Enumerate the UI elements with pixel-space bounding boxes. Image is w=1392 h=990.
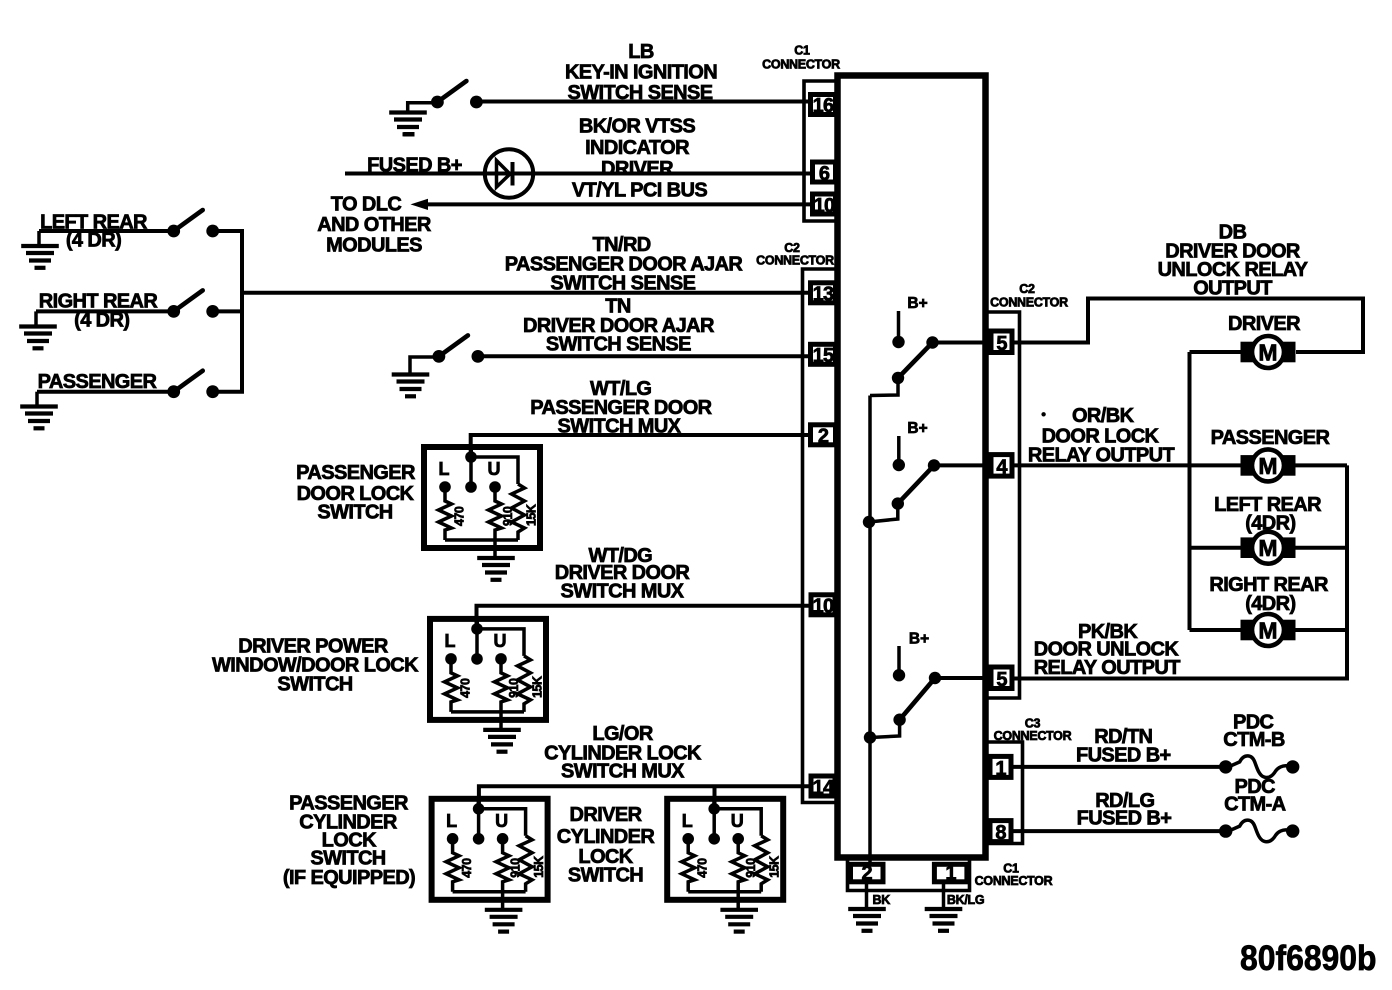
wire passenger door mux to pin 2	[471, 435, 810, 452]
ground (right rear switch)	[19, 327, 57, 349]
left rear door ajar switch	[167, 210, 219, 237]
driver door ajar switch	[433, 335, 485, 362]
svg-text:(IF EQUIPPED): (IF EQUIPPED)	[283, 867, 415, 889]
svg-text:DRIVER: DRIVER	[570, 804, 643, 826]
relay K3 wiper node	[893, 714, 905, 726]
pin 10	[813, 194, 836, 217]
wire motor unlock bus	[1345, 465, 1349, 678]
wire relay K1 to pin 5	[933, 341, 992, 345]
wire right rear switch feed	[36, 309, 168, 313]
VTSS indicator LED circle	[485, 149, 533, 197]
relay K1 wiper node	[892, 372, 904, 384]
wire relay K1 wiper to bus	[870, 378, 898, 396]
label RD/LG FUSED B+	[1077, 790, 1172, 829]
label TO DLC AND OTHER MODULES	[317, 194, 432, 257]
wire pin 8 to PDC CTM-A	[1011, 829, 1226, 833]
label LG/OR CYLINDER LOCK SWITCH MUX	[544, 723, 702, 783]
pin 2	[811, 425, 836, 448]
ground (passenger switch)	[20, 407, 58, 429]
svg-text:SWITCH SENSE: SWITCH SENSE	[546, 334, 691, 356]
passenger door lock motor M2	[1241, 449, 1296, 481]
wire right rear ground stem	[34, 311, 38, 325]
svg-text:BK/OR VTSS: BK/OR VTSS	[579, 116, 695, 138]
svg-text:1: 1	[995, 758, 1006, 780]
svg-text:10: 10	[813, 596, 834, 618]
wire driver motor to lock bus	[1190, 350, 1243, 354]
wire right rear contact to bus	[211, 309, 244, 313]
label TN/RD PASSENGER DOOR AJAR SWITCH SENSE	[505, 234, 744, 295]
wire left rear motor to unlock bus	[1294, 546, 1347, 550]
svg-text:VT/YL PCI BUS: VT/YL PCI BUS	[572, 180, 707, 202]
label PK/BK DOOR UNLOCK RELAY OUTPUT	[1034, 621, 1181, 679]
stray mark	[404, 132, 415, 137]
ground BK/LG	[925, 909, 963, 931]
label RD/TN FUSED B+	[1076, 726, 1171, 767]
svg-text:1: 1	[945, 863, 956, 885]
label C1 CONNECTOR (bottom)	[975, 862, 1053, 889]
pin 14	[811, 776, 835, 799]
relay K3 B+ stub	[897, 646, 901, 670]
wire lock bus to left rear motor	[1190, 546, 1243, 550]
wire relay K2 wiper to bus	[869, 504, 898, 522]
label TN DRIVER DOOR AJAR SWITCH SENSE	[523, 296, 715, 356]
svg-text:PASSENGER: PASSENGER	[296, 462, 416, 484]
svg-text:5: 5	[996, 669, 1007, 691]
connector C3 bracket (right)	[985, 742, 1023, 844]
label LEFT REAR (4DR) motor	[1214, 494, 1322, 535]
wire key-in sense to pin 16	[477, 100, 810, 104]
driver door lock motor M1	[1241, 336, 1296, 368]
connector C1 bracket (top left)	[804, 81, 838, 221]
ground (left rear switch)	[21, 246, 59, 268]
pin 8 (C3)	[990, 821, 1011, 844]
label C1 CONNECTOR (top)	[762, 44, 840, 72]
svg-text:2: 2	[818, 426, 829, 448]
relay K2 B+ stub	[897, 436, 901, 460]
pin 6	[813, 162, 836, 185]
node bus junction K3	[864, 731, 876, 743]
label C2 CONNECTOR (right)	[990, 282, 1068, 310]
svg-text:SWITCH MUX: SWITCH MUX	[561, 580, 685, 602]
wire DB driver door unlock relay output	[1012, 299, 1363, 353]
relay K1 contact node	[926, 336, 938, 348]
svg-text:CONNECTOR: CONNECTOR	[756, 254, 834, 268]
relay K3 contact node	[929, 672, 941, 684]
label DB DRIVER DOOR UNLOCK RELAY OUTPUT	[1158, 221, 1309, 299]
wire left rear switch feed	[39, 229, 168, 233]
passenger door lock switch assembly	[424, 447, 540, 580]
relay K2 lever	[898, 465, 934, 503]
svg-text:4: 4	[996, 457, 1008, 479]
wire passenger motor to unlock bus	[1294, 463, 1347, 467]
svg-text:CYLINDER: CYLINDER	[557, 826, 656, 848]
label RIGHT REAR (4DR) motor	[1209, 574, 1329, 615]
svg-text:KEY-IN IGNITION: KEY-IN IGNITION	[565, 62, 717, 84]
svg-text:CTM-B: CTM-B	[1223, 729, 1285, 751]
svg-text:5: 5	[996, 333, 1007, 355]
pin 16	[811, 95, 836, 118]
right rear door ajar switch	[167, 290, 219, 317]
ground BK	[848, 909, 886, 931]
svg-text:(4DR): (4DR)	[1245, 593, 1295, 615]
wire ajar switch bus	[240, 231, 244, 392]
svg-text:10: 10	[814, 195, 835, 217]
label DRIVER CYLINDER LOCK SWITCH	[557, 804, 656, 887]
svg-text:SWITCH: SWITCH	[317, 502, 392, 524]
svg-text:C1: C1	[794, 44, 810, 58]
wire relay K3 wiper to bus	[871, 720, 900, 738]
label PDC CTM-A	[1224, 776, 1286, 815]
connector C2 bracket (right)	[985, 312, 1020, 698]
relay K3 lever	[900, 678, 935, 720]
pin 1 (C3)	[990, 756, 1011, 780]
wire key-in switch to ground	[408, 103, 432, 113]
wire right rear motor to unlock bus	[1294, 628, 1347, 632]
wire passenger contact to bus	[211, 390, 244, 394]
svg-text:14: 14	[813, 777, 835, 799]
connector C2 bracket (left)	[803, 269, 839, 803]
passenger cylinder lock switch assembly	[432, 799, 548, 932]
svg-text:MODULES: MODULES	[326, 235, 422, 257]
wire OR/BK door lock relay output to passenger motor	[1012, 463, 1242, 467]
svg-text:80f6890b: 80f6890b	[1240, 939, 1377, 978]
label LB KEY-IN IGNITION SWITCH SENSE	[565, 41, 717, 104]
svg-text:PASSENGER: PASSENGER	[1211, 427, 1331, 449]
wire fused B+ through indicator to pin 6	[345, 172, 812, 176]
wire relay K3 to pin 5	[935, 676, 991, 680]
driver power window/door lock switch assembly	[430, 619, 546, 752]
svg-text:INDICATOR: INDICATOR	[585, 137, 690, 159]
relay K2 wiper node	[892, 497, 904, 509]
label OR/BK DOOR LOCK RELAY OUTPUT	[1028, 405, 1175, 467]
svg-text:AND OTHER: AND OTHER	[317, 214, 432, 236]
diode symbol	[497, 161, 513, 188]
svg-text:RELAY OUTPUT: RELAY OUTPUT	[1034, 657, 1181, 679]
wire motor lock bus	[1188, 352, 1192, 630]
central time module U1 box	[838, 76, 986, 858]
label C2 CONNECTOR (left)	[756, 241, 834, 268]
wire PK/BK door unlock relay output	[1012, 677, 1349, 681]
svg-text:FUSED B+: FUSED B+	[1076, 745, 1171, 767]
key-in ignition switch S1	[431, 81, 483, 108]
pin 5 (C2 right top)	[991, 331, 1012, 355]
svg-text:SWITCH: SWITCH	[568, 865, 643, 887]
label WT/DG DRIVER DOOR SWITCH MUX	[555, 545, 691, 602]
svg-text:OR/BK: OR/BK	[1072, 405, 1135, 427]
label DRIVER POWER WINDOW/DOOR LOCK SWITCH	[212, 635, 419, 695]
wire branch to driver cylinder switch	[713, 786, 717, 810]
relay K1 lever	[898, 343, 933, 379]
pin 15	[811, 344, 836, 367]
svg-text:CTM-A: CTM-A	[1224, 793, 1286, 815]
svg-text:13: 13	[813, 284, 834, 306]
svg-text:8: 8	[995, 822, 1006, 844]
wire passenger switch feed	[37, 390, 168, 394]
wire left rear ground stem	[37, 231, 41, 245]
svg-text:B+: B+	[907, 295, 927, 312]
relay K3 B+ node	[893, 669, 905, 681]
left rear door lock motor M3	[1241, 532, 1296, 564]
label PDC CTM-B	[1223, 712, 1285, 751]
svg-text:RELAY OUTPUT: RELAY OUTPUT	[1028, 445, 1175, 467]
relay K1 B+ node	[892, 336, 904, 348]
svg-text:B+: B+	[907, 420, 927, 437]
wire driver ajar sense to pin 15	[478, 354, 810, 358]
fuse PDC CTM-B	[1219, 756, 1299, 778]
svg-text:SWITCH: SWITCH	[277, 674, 352, 696]
wire ajar sense to pin 13	[242, 291, 810, 295]
label PASSENGER DOOR LOCK SWITCH	[296, 462, 416, 524]
fuse PDC CTM-A	[1219, 820, 1299, 842]
svg-text:BK: BK	[873, 893, 891, 907]
label LEFT REAR (4 DR)	[40, 212, 148, 252]
label C3 CONNECTOR	[994, 717, 1072, 744]
svg-text:LB: LB	[628, 41, 654, 63]
wire relay K2 to pin 4	[934, 463, 991, 467]
svg-text:CONNECTOR: CONNECTOR	[762, 58, 840, 72]
pin 10 (C2)	[811, 595, 835, 618]
svg-text:DRIVER: DRIVER	[1228, 313, 1301, 335]
wire internal ground bus	[868, 396, 872, 865]
wire driver ajar switch to ground	[410, 357, 434, 374]
svg-text:CONNECTOR: CONNECTOR	[994, 729, 1072, 743]
svg-text:CONNECTOR: CONNECTOR	[990, 296, 1068, 310]
wire pin 1 to PDC CTM-B	[1011, 765, 1226, 769]
svg-text:DRIVER: DRIVER	[601, 158, 674, 180]
svg-text:FUSED B+: FUSED B+	[1077, 807, 1172, 829]
wire PCI bus to pin 10	[426, 202, 812, 206]
wire pin1 to ground BK/LG	[942, 882, 946, 908]
svg-text:OUTPUT: OUTPUT	[1193, 278, 1272, 300]
svg-text:SWITCH MUX: SWITCH MUX	[561, 761, 685, 783]
svg-text:2: 2	[862, 863, 873, 885]
ground (key-in switch)	[389, 113, 427, 135]
connector C1 bracket (bottom)	[848, 858, 970, 891]
pin 13	[811, 283, 836, 306]
node bus junction K2	[863, 516, 875, 528]
svg-text:6: 6	[819, 163, 830, 185]
label PASSENGER CYLINDER LOCK SWITCH (IF EQUIPPED)	[283, 793, 415, 890]
passenger door ajar switch	[167, 371, 219, 398]
label RIGHT REAR (4 DR)	[39, 291, 159, 332]
label WT/LG PASSENGER DOOR SWITCH MUX	[530, 378, 712, 437]
svg-text:CONNECTOR: CONNECTOR	[975, 874, 1053, 888]
svg-text:16: 16	[813, 95, 834, 117]
wire pin2 to ground BK	[865, 882, 869, 908]
svg-text:BK/LG: BK/LG	[947, 893, 984, 907]
svg-text:C2: C2	[1019, 282, 1035, 296]
svg-text:TO DLC: TO DLC	[331, 194, 402, 216]
label BK/OR VTSS INDICATOR DRIVER	[579, 116, 695, 181]
pin 5 (C2 right bottom)	[991, 667, 1012, 691]
PCI bus arrowhead	[411, 199, 429, 210]
pin 1 (C1 bottom)	[934, 863, 967, 885]
wire passenger ground stem	[35, 392, 39, 405]
wire cylinder lock mux to pin 14	[479, 786, 811, 804]
relay K1 B+ stub	[897, 311, 901, 337]
driver cylinder lock switch assembly	[667, 799, 783, 932]
wire lock bus to right rear motor	[1190, 628, 1243, 632]
stray dot	[1041, 412, 1045, 416]
relay K2 contact node	[928, 459, 940, 471]
relay K2 B+ node	[893, 459, 905, 471]
right rear door lock motor M4	[1241, 614, 1296, 646]
pin 4	[991, 455, 1012, 479]
svg-text:15: 15	[813, 345, 834, 367]
svg-text:B+: B+	[909, 631, 929, 648]
wire driver door mux to pin 10	[477, 606, 812, 624]
ground (driver ajar switch)	[392, 375, 430, 397]
pin 2 (C1 bottom)	[851, 863, 884, 885]
wire left rear contact to bus	[211, 229, 244, 233]
